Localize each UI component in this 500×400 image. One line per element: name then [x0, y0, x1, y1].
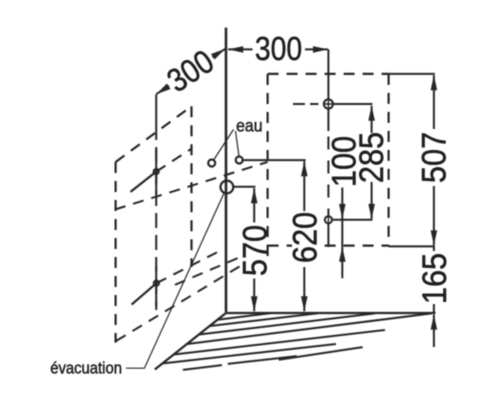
- svg-text:507: 507: [415, 132, 453, 183]
- svg-text:300: 300: [255, 30, 302, 68]
- svg-text:eau: eau: [236, 115, 262, 135]
- svg-text:620: 620: [286, 212, 324, 263]
- svg-text:570: 570: [236, 225, 274, 276]
- svg-text:évacuation: évacuation: [50, 360, 122, 378]
- svg-text:285: 285: [352, 132, 390, 183]
- svg-text:165: 165: [415, 253, 453, 304]
